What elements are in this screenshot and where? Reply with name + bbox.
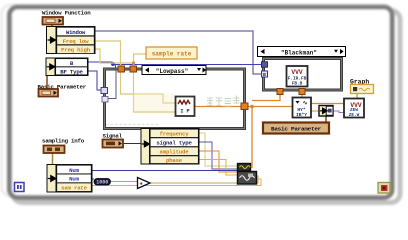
svg-text:Freq high: Freq high <box>61 47 91 54</box>
svg-text:IB*Y: IB*Y <box>296 112 307 118</box>
svg-text:1000: 1000 <box>96 179 108 185</box>
svg-text:∿: ∿ <box>303 100 308 107</box>
svg-text:Window Function: Window Function <box>42 10 91 17</box>
svg-text:Num: Num <box>69 176 79 183</box>
svg-text:signal type: signal type <box>156 140 192 147</box>
svg-text:sampling info: sampling info <box>42 138 85 145</box>
svg-text:Basic Parameter: Basic Parameter <box>271 126 322 133</box>
svg-text:sam rate: sam rate <box>61 185 87 192</box>
svg-text:sample rate: sample rate <box>152 51 192 58</box>
svg-text:Window: Window <box>66 29 86 36</box>
svg-text:"Blackman": "Blackman" <box>281 50 317 57</box>
svg-text:B: B <box>263 72 266 78</box>
svg-text:frequency: frequency <box>160 131 190 138</box>
svg-text:BF Type: BF Type <box>60 68 83 75</box>
svg-text:phase: phase <box>166 157 183 164</box>
svg-text:ZE.W: ZE.W <box>349 113 360 118</box>
svg-text:Num: Num <box>69 167 79 174</box>
svg-text:I P: I P <box>180 109 189 115</box>
svg-text:"Lowpass": "Lowpass" <box>156 68 188 75</box>
svg-text:Signal: Signal <box>103 133 123 140</box>
svg-text:amplitude: amplitude <box>160 149 190 156</box>
svg-text:VVV: VVV <box>291 69 302 76</box>
svg-text:FB.B: FB.B <box>292 82 303 87</box>
svg-text:Freq low: Freq low <box>63 38 89 45</box>
